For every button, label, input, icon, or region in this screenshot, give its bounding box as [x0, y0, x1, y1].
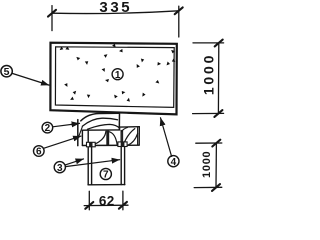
svg-text:1: 1	[115, 70, 121, 81]
svg-text:5: 5	[4, 66, 10, 78]
svg-text:6: 6	[36, 147, 42, 158]
svg-text:7: 7	[103, 170, 109, 181]
svg-text:1000: 1000	[200, 53, 216, 95]
svg-text:62: 62	[99, 193, 115, 208]
svg-text:1000: 1000	[201, 151, 213, 178]
svg-text:2: 2	[45, 123, 51, 134]
svg-text:3: 3	[57, 163, 63, 174]
svg-text:335: 335	[99, 0, 132, 16]
svg-text:4: 4	[171, 157, 177, 168]
